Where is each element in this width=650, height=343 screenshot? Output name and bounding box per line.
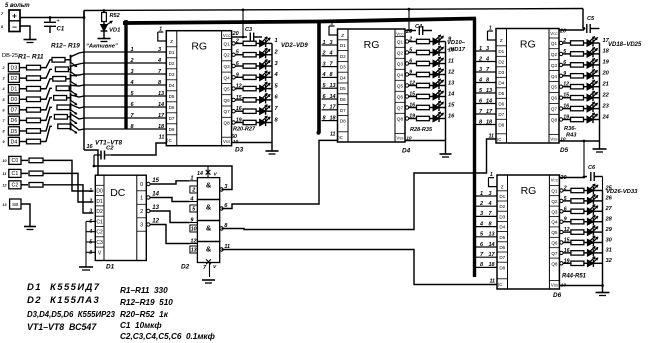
svg-text:C6: C6 xyxy=(588,165,596,171)
svg-text:R1– R11: R1– R11 xyxy=(18,54,44,61)
svg-text:3: 3 xyxy=(330,40,333,46)
svg-text:Q3: Q3 xyxy=(551,209,558,214)
svg-text:RG: RG xyxy=(191,41,207,53)
svg-text:D7: D7 xyxy=(340,108,346,113)
svg-text:D7: D7 xyxy=(169,116,175,121)
svg-text:VT1–VT8: VT1–VT8 xyxy=(95,140,122,147)
svg-text:28: 28 xyxy=(605,217,613,223)
svg-text:1: 1 xyxy=(331,21,334,27)
svg-text:Q5: Q5 xyxy=(224,87,231,92)
svg-text:D8: D8 xyxy=(499,265,505,270)
svg-text:14: 14 xyxy=(330,94,336,100)
svg-text:RG: RG xyxy=(520,39,536,51)
svg-text:C5: C5 xyxy=(587,16,595,22)
svg-text:5 вольт: 5 вольт xyxy=(5,3,30,9)
svg-text:32: 32 xyxy=(606,258,613,264)
svg-text:R12–R19 510: R12–R19 510 xyxy=(120,298,173,307)
svg-text:⟩C: ⟩C xyxy=(497,137,502,142)
svg-text:D7: D7 xyxy=(498,112,504,117)
svg-text:R28-R35: R28-R35 xyxy=(410,127,433,133)
svg-text:Q6: Q6 xyxy=(397,95,404,100)
svg-text:14: 14 xyxy=(448,91,455,97)
svg-text:14: 14 xyxy=(152,191,159,197)
svg-text:Q2: Q2 xyxy=(397,51,404,56)
svg-text:0: 0 xyxy=(140,182,143,188)
svg-text:D5: D5 xyxy=(499,235,505,240)
svg-text:4: 4 xyxy=(329,51,333,57)
svg-text:&: & xyxy=(206,181,212,190)
svg-text:D2: D2 xyxy=(96,209,103,215)
svg-text:18: 18 xyxy=(603,49,610,55)
svg-text:Q2: Q2 xyxy=(224,53,231,58)
svg-text:VCC: VCC xyxy=(550,31,558,36)
svg-text:D1: D1 xyxy=(498,49,504,54)
svg-text:VSS: VSS xyxy=(223,139,230,144)
svg-text:⟩C: ⟩C xyxy=(338,135,343,140)
svg-text:16: 16 xyxy=(87,144,94,150)
svg-text:C2: C2 xyxy=(12,183,19,189)
svg-text:1: 1 xyxy=(323,40,326,46)
svg-text:⟩C: ⟩C xyxy=(498,282,503,287)
svg-text:19: 19 xyxy=(603,60,610,66)
svg-text:18: 18 xyxy=(489,262,496,268)
svg-text:30: 30 xyxy=(606,237,613,243)
svg-text:D7: D7 xyxy=(499,255,505,260)
svg-text:2: 2 xyxy=(478,56,482,62)
svg-text:31: 31 xyxy=(606,248,612,254)
svg-text:Q5: Q5 xyxy=(397,84,404,89)
svg-text:C1 10мкф: C1 10мкф xyxy=(120,321,162,330)
svg-text:18: 18 xyxy=(330,115,337,121)
svg-text:3: 3 xyxy=(140,223,143,229)
svg-text:D1: D1 xyxy=(340,43,346,48)
svg-text:4: 4 xyxy=(130,80,134,86)
svg-text:D4: D4 xyxy=(402,148,411,155)
svg-text:Q4: Q4 xyxy=(551,220,558,225)
svg-text:D2: D2 xyxy=(498,60,504,65)
svg-text:VD1: VD1 xyxy=(109,28,120,34)
svg-text:4: 4 xyxy=(157,58,161,64)
svg-text:C1: C1 xyxy=(96,219,103,225)
svg-text:11: 11 xyxy=(490,279,496,285)
svg-text:VCC: VCC xyxy=(551,177,559,182)
svg-text:D5: D5 xyxy=(560,147,569,154)
svg-text:22: 22 xyxy=(602,93,610,99)
svg-text:⟩C: ⟩C xyxy=(167,138,172,143)
svg-text:20: 20 xyxy=(602,71,610,77)
svg-text:VSS: VSS xyxy=(396,135,403,140)
svg-text:D2: D2 xyxy=(340,54,346,59)
svg-text:17: 17 xyxy=(489,252,496,258)
svg-text:14: 14 xyxy=(158,102,164,108)
svg-text:C1: C1 xyxy=(57,27,65,33)
svg-text:VCC: VCC xyxy=(396,31,404,36)
svg-text:R20-R27: R20-R27 xyxy=(233,127,256,133)
svg-text:D1: D1 xyxy=(11,87,18,93)
svg-text:R52: R52 xyxy=(110,13,121,19)
svg-text:Z: Z xyxy=(501,185,504,191)
svg-text:13: 13 xyxy=(486,88,492,94)
svg-text:2: 2 xyxy=(130,58,134,64)
svg-text:&: & xyxy=(206,203,212,212)
svg-text:2: 2 xyxy=(322,51,326,57)
svg-text:12: 12 xyxy=(190,238,196,244)
svg-text:D6: D6 xyxy=(499,245,505,250)
svg-text:10: 10 xyxy=(3,159,7,163)
svg-text:13: 13 xyxy=(3,203,7,207)
svg-text:D1: D1 xyxy=(499,194,505,199)
svg-text:11: 11 xyxy=(448,58,454,64)
svg-text:3: 3 xyxy=(158,47,161,53)
svg-text:50: 50 xyxy=(231,134,237,140)
svg-text:2: 2 xyxy=(479,201,483,207)
svg-text:RG: RG xyxy=(364,39,380,51)
svg-text:Q8: Q8 xyxy=(551,118,558,123)
svg-text:11: 11 xyxy=(159,135,165,141)
svg-text:Q4: Q4 xyxy=(224,75,231,80)
svg-text:D6: D6 xyxy=(553,292,562,299)
svg-text:3: 3 xyxy=(480,211,483,217)
svg-text:12: 12 xyxy=(3,183,7,187)
svg-text:D1: D1 xyxy=(106,264,115,271)
svg-text:2: 2 xyxy=(191,187,195,193)
svg-text:D6: D6 xyxy=(340,97,346,102)
svg-text:10: 10 xyxy=(191,226,197,232)
svg-text:18: 18 xyxy=(486,119,493,125)
svg-text:D3: D3 xyxy=(498,70,504,75)
svg-text:D4: D4 xyxy=(499,225,505,230)
svg-text:1: 1 xyxy=(131,47,134,53)
svg-text:3: 3 xyxy=(131,69,134,75)
svg-text:3: 3 xyxy=(489,191,492,197)
svg-text:Q5: Q5 xyxy=(551,230,558,235)
svg-text:VD18–VD25: VD18–VD25 xyxy=(608,42,642,48)
svg-text:Q7: Q7 xyxy=(397,106,404,111)
svg-text:R36-: R36- xyxy=(564,126,576,132)
svg-text:26: 26 xyxy=(605,196,613,202)
svg-text:27: 27 xyxy=(605,206,613,212)
svg-text:D1: D1 xyxy=(96,199,103,205)
svg-text:D3,D4,D5,D6 К555ИР23: D3,D4,D5,D6 К555ИР23 xyxy=(27,310,116,319)
svg-text:1: 1 xyxy=(159,27,162,33)
svg-text:VD10–: VD10– xyxy=(447,40,466,46)
svg-text:&: & xyxy=(206,224,212,233)
svg-text:–VD17: –VD17 xyxy=(447,47,466,53)
svg-text:3: 3 xyxy=(486,46,489,52)
svg-text:4: 4 xyxy=(488,201,492,207)
svg-text:14: 14 xyxy=(489,242,495,248)
svg-text:4: 4 xyxy=(322,72,326,78)
svg-text:VSS: VSS xyxy=(550,136,557,141)
svg-text:D5: D5 xyxy=(498,91,504,96)
svg-text:Q6: Q6 xyxy=(551,96,558,101)
svg-text:2: 2 xyxy=(2,66,5,70)
svg-text:R43: R43 xyxy=(566,133,577,139)
svg-text:1: 1 xyxy=(140,196,143,202)
svg-text:SB: SB xyxy=(12,202,18,208)
svg-text:&: & xyxy=(206,245,212,254)
svg-text:Z: Z xyxy=(500,38,503,44)
svg-text:C1: C1 xyxy=(12,171,19,177)
svg-text:D5: D5 xyxy=(169,94,175,99)
svg-text:VCC: VCC xyxy=(223,33,231,38)
svg-text:2: 2 xyxy=(140,209,143,215)
svg-text:C3: C3 xyxy=(96,240,103,246)
svg-text:1: 1 xyxy=(489,26,492,32)
svg-text:D2: D2 xyxy=(499,204,505,209)
svg-text:24: 24 xyxy=(602,114,610,120)
svg-text:Q1: Q1 xyxy=(224,41,231,46)
svg-text:C4: C4 xyxy=(415,24,423,30)
svg-text:3: 3 xyxy=(479,67,482,73)
svg-text:D6: D6 xyxy=(11,118,18,124)
svg-text:DB-25: DB-25 xyxy=(2,53,18,59)
svg-text:D6: D6 xyxy=(169,105,175,110)
svg-text:21: 21 xyxy=(602,82,609,88)
svg-text:D4: D4 xyxy=(11,139,18,145)
svg-text:R44-R51: R44-R51 xyxy=(562,274,587,280)
svg-text:Q8: Q8 xyxy=(224,121,231,126)
svg-text:D8: D8 xyxy=(169,127,175,132)
svg-text:Q7: Q7 xyxy=(224,109,231,114)
svg-text:12: 12 xyxy=(448,69,455,75)
svg-text:12: 12 xyxy=(152,218,159,224)
svg-text:D8: D8 xyxy=(498,123,504,128)
svg-text:Q4: Q4 xyxy=(397,73,404,78)
svg-text:D3: D3 xyxy=(499,214,505,219)
svg-text:C2: C2 xyxy=(96,230,103,236)
svg-text:3: 3 xyxy=(323,61,326,67)
svg-text:RG: RG xyxy=(521,185,537,197)
svg-text:D1: D1 xyxy=(169,50,175,55)
svg-text:13: 13 xyxy=(448,80,455,86)
svg-text:4: 4 xyxy=(478,77,482,83)
svg-text:R20–R52 1к: R20–R52 1к xyxy=(120,310,169,319)
svg-text:1: 1 xyxy=(480,191,483,197)
svg-text:3: 3 xyxy=(89,209,92,215)
svg-text:VT1–VT8 ВС547: VT1–VT8 ВС547 xyxy=(27,322,97,332)
svg-text:Q2: Q2 xyxy=(551,199,558,204)
svg-text:18: 18 xyxy=(158,124,165,130)
svg-text:VSS: VSS xyxy=(551,282,558,287)
svg-text:23: 23 xyxy=(602,103,610,109)
svg-text:Q4: Q4 xyxy=(551,74,558,79)
svg-text:R12– R19: R12– R19 xyxy=(51,43,80,50)
svg-text:1: 1 xyxy=(490,172,493,178)
svg-text:D2: D2 xyxy=(181,264,190,271)
svg-text:Q1: Q1 xyxy=(397,40,404,45)
svg-text:4: 4 xyxy=(189,196,193,202)
svg-text:D3: D3 xyxy=(235,147,244,154)
svg-text:Z: Z xyxy=(341,33,344,39)
svg-text:D2: D2 xyxy=(11,76,18,82)
svg-text:D0: D0 xyxy=(96,189,103,195)
svg-text:D4: D4 xyxy=(340,75,346,80)
svg-text:D2 К155ЛА3: D2 К155ЛА3 xyxy=(27,295,100,306)
svg-text:15: 15 xyxy=(152,178,159,184)
svg-text:D3: D3 xyxy=(11,65,18,71)
svg-text:11: 11 xyxy=(3,172,7,176)
svg-text:15: 15 xyxy=(448,102,455,108)
svg-text:Q6: Q6 xyxy=(224,98,231,103)
svg-text:D7: D7 xyxy=(11,108,18,114)
svg-text:11: 11 xyxy=(330,132,336,138)
svg-text:17: 17 xyxy=(330,105,337,111)
svg-text:Q3: Q3 xyxy=(397,62,404,67)
svg-text:Q3: Q3 xyxy=(551,63,558,68)
svg-text:1: 1 xyxy=(89,188,92,194)
svg-text:13: 13 xyxy=(158,91,164,97)
svg-text:D6: D6 xyxy=(498,102,504,107)
svg-text:+: + xyxy=(57,19,60,25)
svg-text:17: 17 xyxy=(158,113,165,119)
svg-text:D1 К555ИД7: D1 К555ИД7 xyxy=(27,282,101,293)
svg-text:D5: D5 xyxy=(340,86,346,91)
svg-text:D4: D4 xyxy=(169,83,175,88)
svg-text:Q5: Q5 xyxy=(551,85,558,90)
svg-text:17: 17 xyxy=(486,109,493,115)
svg-text:DC: DC xyxy=(110,187,126,199)
svg-text:“Активне”: “Активне” xyxy=(86,44,118,50)
svg-text:Q2: Q2 xyxy=(551,52,558,57)
svg-text:13: 13 xyxy=(330,83,336,89)
svg-text:Q8: Q8 xyxy=(551,261,558,266)
svg-text:13: 13 xyxy=(191,247,197,253)
svg-text:4: 4 xyxy=(485,56,489,62)
svg-text:4: 4 xyxy=(2,87,5,91)
svg-text:9: 9 xyxy=(3,140,5,144)
svg-text:16: 16 xyxy=(448,113,455,119)
svg-text:8: 8 xyxy=(3,129,5,133)
svg-text:R1–R11 330: R1–R11 330 xyxy=(120,286,168,295)
svg-text:1: 1 xyxy=(275,38,278,44)
svg-text:D2: D2 xyxy=(169,61,175,66)
svg-text:Q6: Q6 xyxy=(551,241,558,246)
svg-text:14: 14 xyxy=(197,171,203,177)
svg-text:20: 20 xyxy=(232,31,239,37)
svg-text:1: 1 xyxy=(479,46,482,52)
svg-text:13: 13 xyxy=(489,232,495,238)
svg-text:–: – xyxy=(12,22,17,32)
svg-text:Q1: Q1 xyxy=(551,189,558,194)
svg-text:Q1: Q1 xyxy=(551,41,558,46)
svg-text:3: 3 xyxy=(3,77,5,81)
svg-text:C2,C3,C4,C5,C6 0.1мкф: C2,C3,C4,C5,C6 0.1мкф xyxy=(120,332,215,341)
svg-text:1: 1 xyxy=(190,176,193,182)
svg-text:Q3: Q3 xyxy=(224,64,231,69)
svg-text:D5: D5 xyxy=(11,129,18,135)
svg-text:C0: C0 xyxy=(12,158,19,164)
svg-text:11: 11 xyxy=(489,134,495,140)
svg-text:D3: D3 xyxy=(340,65,346,70)
svg-text:29: 29 xyxy=(605,227,613,233)
svg-text:4: 4 xyxy=(479,221,483,227)
svg-text:+: + xyxy=(12,11,17,21)
svg-text:D3: D3 xyxy=(169,72,175,77)
svg-text:Q7: Q7 xyxy=(551,107,558,112)
svg-text:Z: Z xyxy=(170,39,173,45)
svg-text:13: 13 xyxy=(152,205,159,211)
svg-text:D0: D0 xyxy=(11,97,18,103)
svg-text:D4: D4 xyxy=(498,81,504,86)
svg-text:2: 2 xyxy=(88,198,92,204)
svg-text:Q7: Q7 xyxy=(551,251,558,256)
svg-text:14: 14 xyxy=(486,98,492,104)
svg-text:D8: D8 xyxy=(340,119,346,124)
svg-text:Q8: Q8 xyxy=(397,117,404,122)
svg-text:C3: C3 xyxy=(245,27,253,33)
svg-text:VD26-VD33: VD26-VD33 xyxy=(606,189,638,195)
svg-text:VD2–VD9: VD2–VD9 xyxy=(281,43,308,49)
